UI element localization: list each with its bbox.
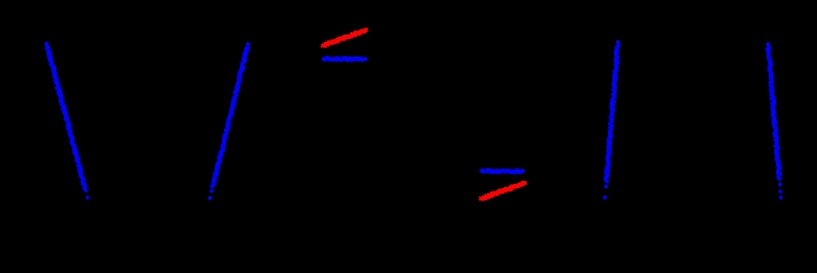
curve G: steep blue line, leaning left (panel 2) [603, 40, 621, 200]
curve F: short red rising segment (panel 2, left) [479, 181, 526, 200]
curve H: steep blue line, leaning right (panel 2, far right) [766, 42, 784, 200]
curve A: left blue branch, descending right (panel 1) [44, 41, 89, 199]
curve C: short red rising segment (panel 1, upper right) [321, 28, 368, 48]
curve B: right blue branch, descending left (panel 1) [208, 42, 250, 200]
curve E: short blue horizontal segment (panel 2, left) [479, 168, 525, 174]
curve D: short blue horizontal segment (panel 1, upper right) [322, 56, 368, 62]
